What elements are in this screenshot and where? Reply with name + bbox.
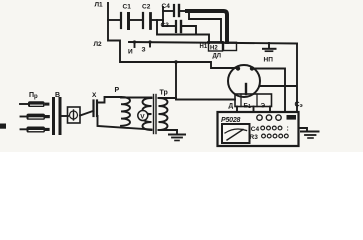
svg-text:Х: Х	[92, 92, 97, 99]
svg-text:НП: НП	[264, 57, 274, 64]
svg-text:Пр: Пр	[29, 92, 38, 100]
svg-text::: :	[287, 126, 289, 133]
svg-text:Н1: Н1	[200, 44, 208, 50]
svg-text:Р5028: Р5028	[221, 117, 241, 124]
svg-text:Тр: Тр	[160, 90, 168, 97]
svg-text:С3: С3	[161, 22, 170, 29]
svg-text:ДЛ: ДЛ	[213, 53, 221, 59]
svg-text:С4: С4	[251, 126, 260, 133]
svg-text:Л1: Л1	[95, 2, 104, 9]
svg-text:С2: С2	[142, 4, 151, 11]
svg-text:С4: С4	[162, 3, 171, 10]
svg-text:Э: Э	[261, 103, 266, 110]
svg-text:V: V	[140, 113, 145, 120]
svg-text:В: В	[55, 92, 60, 99]
svg-text:R3: R3	[250, 134, 259, 141]
svg-text:И: И	[128, 49, 133, 56]
svg-text:Д: Д	[229, 103, 234, 110]
svg-text:С1: С1	[123, 4, 132, 11]
svg-text:Сэ: Сэ	[295, 102, 303, 110]
svg-text:З: З	[142, 47, 146, 54]
svg-text:Н2: Н2	[210, 45, 218, 51]
svg-text:Л2: Л2	[94, 41, 103, 48]
svg-text:Б1: Б1	[244, 103, 252, 111]
svg-text:Р: Р	[115, 87, 120, 94]
